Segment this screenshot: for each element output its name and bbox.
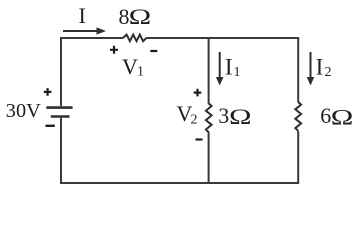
svg-text:Ω: Ω [129,4,152,29]
polarity minus V2 [196,138,203,140]
battery source 30V top plate [46,106,72,109]
svg-text:6: 6 [320,103,331,128]
battery plus [44,88,52,96]
resistor R2 3ohm zigzag [206,103,212,132]
wire middle branch upper [208,37,210,104]
svg-text:30V: 30V [6,100,41,122]
battery minus [46,125,55,127]
wire top: node A to node B [61,37,298,39]
svg-text:I: I [79,3,86,28]
svg-text:V: V [122,54,138,79]
current arrow I2 [310,52,312,78]
svg-text:Ω: Ω [331,104,352,129]
current arrow I1 [219,52,221,78]
resistor R3 6ohm zigzag [295,102,301,131]
wire right branch lower [297,131,299,184]
wire right branch upper [297,37,299,102]
polarity plus V2 [194,89,202,97]
wire bottom [60,182,299,184]
svg-text:1: 1 [137,65,144,80]
resistor R1 8ohm zigzag [123,35,146,42]
battery source bottom plate [51,115,70,118]
svg-text:I: I [316,55,324,80]
wire middle branch lower [208,132,210,183]
svg-text:2: 2 [325,65,332,80]
current arrow I [63,30,97,32]
wire left lower [60,118,62,184]
wire left upper [60,37,62,106]
svg-text:I: I [225,55,233,80]
svg-text:3: 3 [218,103,229,128]
svg-text:1: 1 [234,65,241,80]
svg-text:2: 2 [191,113,198,128]
svg-text:Ω: Ω [229,104,252,129]
polarity minus V1 [150,50,157,52]
polarity plus V1 [110,46,118,54]
